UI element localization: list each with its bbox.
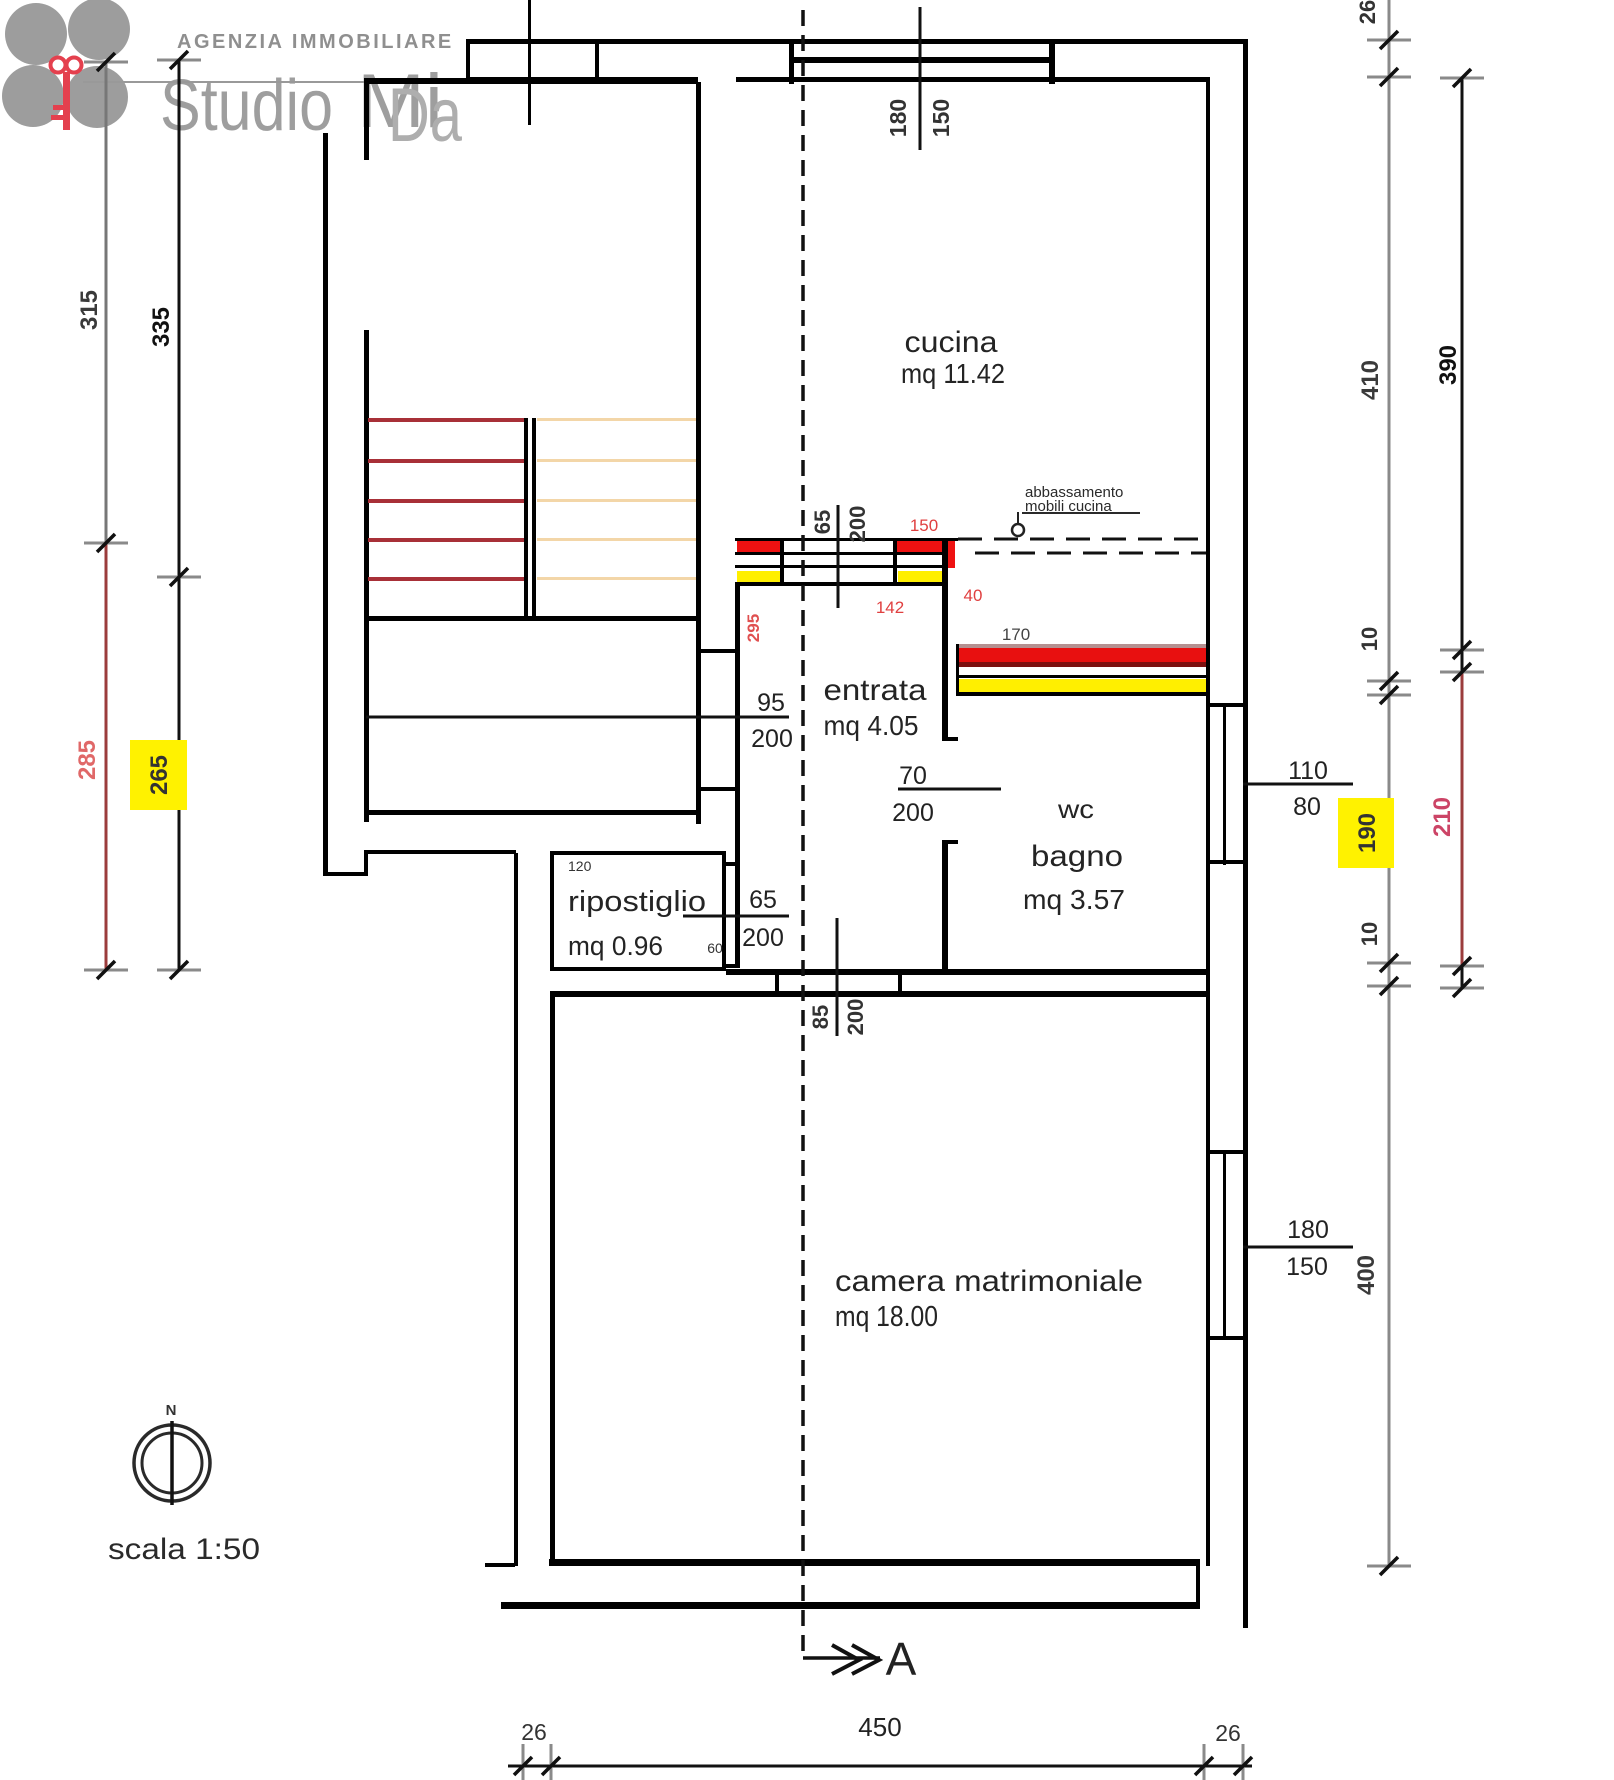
svg-text:AGENZIA IMMOBILIARE: AGENZIA IMMOBILIARE [177,31,454,53]
svg-text:120: 120 [568,858,592,874]
svg-text:mq 18.00: mq 18.00 [835,1301,938,1333]
svg-text:180: 180 [885,99,911,137]
svg-text:315: 315 [76,290,103,330]
svg-text:200: 200 [751,725,793,753]
svg-text:210: 210 [1429,797,1456,837]
svg-text:26: 26 [521,1719,547,1745]
svg-text:142: 142 [876,598,904,617]
svg-text:95: 95 [757,689,785,717]
svg-text:40: 40 [964,586,983,605]
svg-text:400: 400 [1353,1255,1380,1295]
svg-text:ripostiglio: ripostiglio [568,886,706,918]
svg-text:200: 200 [845,506,870,543]
svg-text:10: 10 [1357,627,1382,651]
svg-text:wc: wc [1057,794,1094,824]
svg-text:Studio: Studio [160,66,333,146]
svg-text:bagno: bagno [1031,840,1123,873]
svg-text:mq 11.42: mq 11.42 [901,358,1005,389]
svg-text:265: 265 [146,755,173,795]
svg-text:335: 335 [148,307,175,347]
svg-text:26: 26 [1355,0,1380,24]
svg-text:150: 150 [910,516,938,535]
svg-text:Da: Da [388,73,463,158]
svg-text:cucina: cucina [905,326,998,359]
svg-text:65: 65 [810,510,835,534]
svg-text:N: N [166,1402,177,1419]
svg-text:A: A [886,1633,917,1685]
svg-text:285: 285 [74,740,101,780]
svg-text:170: 170 [1002,625,1030,644]
svg-text:190: 190 [1354,813,1381,853]
svg-text:camera matrimoniale: camera matrimoniale [835,1265,1143,1298]
svg-text:450: 450 [858,1712,901,1742]
svg-text:200: 200 [843,999,868,1036]
svg-text:150: 150 [1286,1253,1328,1281]
svg-text:10: 10 [1357,922,1382,946]
svg-text:60: 60 [707,940,723,956]
svg-text:110: 110 [1288,757,1328,785]
svg-text:mq 3.57: mq 3.57 [1023,884,1125,915]
svg-text:200: 200 [742,924,784,952]
svg-text:180: 180 [1287,1216,1329,1244]
svg-text:65: 65 [749,886,777,914]
svg-text:mq 0.96: mq 0.96 [568,931,663,961]
svg-text:85: 85 [808,1005,833,1029]
svg-text:295: 295 [744,614,763,642]
svg-text:80: 80 [1293,793,1321,821]
svg-text:scala 1:50: scala 1:50 [108,1533,260,1566]
svg-text:26: 26 [1215,1720,1241,1746]
svg-text:70: 70 [899,762,927,790]
svg-text:410: 410 [1357,360,1384,400]
svg-text:entrata: entrata [824,674,927,707]
svg-text:150: 150 [928,99,954,137]
svg-text:mq 4.05: mq 4.05 [824,710,919,741]
svg-text:390: 390 [1435,345,1462,385]
svg-text:200: 200 [892,799,934,827]
